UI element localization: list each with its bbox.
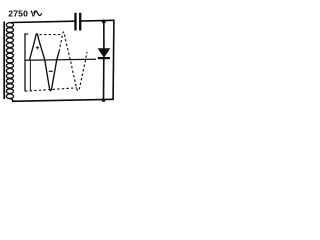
graph vertical axis xyxy=(24,33,26,91)
plus sign xyxy=(36,46,39,49)
node junction top (diode to top wire) xyxy=(102,20,106,24)
axis top serif dash xyxy=(24,33,28,35)
wire coil bottom hook xyxy=(10,99,13,102)
node junction bottom (diode to bottom wire) xyxy=(102,99,105,102)
wire diode cathode xyxy=(103,59,105,100)
wire bottom xyxy=(12,99,114,101)
diode D1 triangle xyxy=(98,49,110,58)
wire coil top hook xyxy=(10,21,14,23)
wire top right segment xyxy=(81,19,115,22)
dashed peak-level line xyxy=(40,34,61,36)
dashed trough-level line xyxy=(25,88,77,91)
sine wave dashed continuation xyxy=(59,32,87,91)
diode D1 cathode bar xyxy=(98,57,110,59)
graph horizontal zero axis xyxy=(25,59,96,60)
AC tilde symbol xyxy=(34,11,42,16)
wire right vertical xyxy=(112,20,115,100)
transformer core line xyxy=(3,22,5,100)
svg-text:2750 V: 2750 V xyxy=(8,8,36,18)
wire diode anode xyxy=(103,21,105,49)
inductor L1 winding xyxy=(6,23,13,99)
minus sign xyxy=(49,70,53,72)
trough projection vertical line xyxy=(29,60,31,91)
capacitor C1 right plate xyxy=(79,13,81,31)
sine wave solid period xyxy=(30,34,60,91)
capacitor C1 left plate xyxy=(74,13,76,31)
wire top left segment xyxy=(12,21,75,22)
